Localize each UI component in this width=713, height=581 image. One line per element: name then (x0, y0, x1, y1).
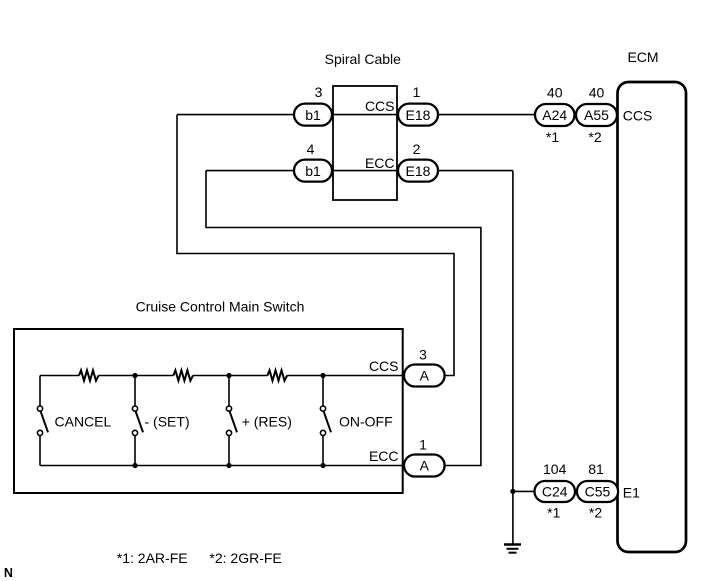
svg-text:40: 40 (589, 85, 605, 101)
wire ECC net: horizontal from left corner through spiral cable to vertical drop (206, 170, 513, 172)
svg-text:b1: b1 (305, 107, 321, 123)
svg-text:E1: E1 (623, 485, 640, 501)
node junction at ground drop (510, 489, 515, 494)
svg-text:CANCEL: CANCEL (55, 414, 112, 430)
svg-text:CCS: CCS (623, 108, 653, 124)
switch CANCEL (37, 376, 111, 466)
node dot top rail at SET branch (132, 373, 137, 378)
wire ECC net: vertical drop from E18 pin2 to ground junction (512, 171, 514, 544)
svg-text:- (SET): - (SET) (145, 414, 190, 430)
spiral cable box (333, 86, 397, 200)
node dot bottom rail at RES branch (226, 463, 231, 468)
wire top rail CCS inside switch (40, 375, 404, 377)
svg-text:ECC: ECC (365, 155, 395, 171)
node dot top rail at ON-OFF branch (320, 373, 325, 378)
node dot bottom rail at ON-OFF branch (320, 463, 325, 468)
svg-text:*2: *2 (589, 505, 602, 521)
svg-text:A55: A55 (584, 107, 609, 123)
svg-text:ECM: ECM (627, 49, 658, 65)
svg-text:*1: 2AR-FE: *1: 2AR-FE (117, 550, 188, 566)
svg-text:CCS: CCS (369, 358, 399, 374)
switch - (SET) (132, 376, 189, 466)
ground symbol (504, 545, 521, 553)
svg-text:CCS: CCS (365, 98, 395, 114)
connector A55 pin 40 (576, 85, 617, 146)
svg-text:*2: 2GR-FE: *2: 2GR-FE (209, 550, 281, 566)
svg-text:1: 1 (419, 437, 427, 453)
svg-text:E18: E18 (406, 107, 431, 123)
svg-text:+ (RES): + (RES) (242, 414, 292, 430)
svg-text:b1: b1 (305, 163, 321, 179)
wire CCS net: horizontal from left corner through spiral cable to ECM (177, 114, 618, 116)
svg-text:A: A (420, 368, 430, 384)
connector A24 pin 40 (535, 85, 575, 146)
svg-text:C55: C55 (585, 484, 611, 500)
connector b1 pin 3 (294, 84, 332, 126)
svg-text:A: A (420, 458, 430, 474)
connector A pin 1 (404, 437, 445, 477)
svg-text:81: 81 (588, 461, 604, 477)
switch + (RES) (226, 376, 291, 466)
node dot top rail at RES branch (226, 373, 231, 378)
wire bottom rail ECC inside switch (40, 465, 404, 467)
wire ECC net: route from b1 pin4 down and right to switch connector A pin1 (206, 171, 481, 466)
wire E1 net: junction to C24/C55 and ECM (513, 490, 618, 492)
svg-text:Cruise Control Main Switch: Cruise Control Main Switch (136, 299, 305, 315)
svg-text:C24: C24 (542, 484, 568, 500)
connector A pin 3 (404, 347, 445, 387)
connector E18 pin 1 (398, 84, 438, 126)
svg-text:4: 4 (307, 141, 315, 157)
resistor R2 (173, 370, 193, 380)
resistor R3 (268, 370, 288, 380)
svg-text:1: 1 (413, 84, 421, 100)
svg-text:40: 40 (547, 85, 563, 101)
node dot bottom rail at SET branch (132, 463, 137, 468)
svg-text:3: 3 (315, 84, 323, 100)
wire CCS net: route from b1 pin3 down and right to switch connector A pin3 (177, 115, 454, 376)
svg-text:A24: A24 (542, 107, 567, 123)
svg-text:104: 104 (543, 461, 567, 477)
svg-text:ON-OFF: ON-OFF (339, 414, 393, 430)
svg-text:*1: *1 (547, 505, 560, 521)
svg-text:Spiral Cable: Spiral Cable (325, 51, 401, 67)
connector E18 pin 2 (398, 141, 438, 182)
svg-text:*1: *1 (546, 129, 559, 145)
svg-text:3: 3 (419, 347, 427, 363)
svg-text:ECC: ECC (369, 448, 399, 464)
connector C24 pin 104 (535, 461, 576, 521)
svg-text:*2: *2 (588, 129, 601, 145)
switch ON-OFF (320, 376, 392, 466)
resistor R1 (79, 370, 99, 380)
svg-text:E18: E18 (406, 163, 431, 179)
cruise control main switch box (14, 329, 403, 493)
svg-text:N: N (4, 566, 13, 580)
ECM box (618, 82, 687, 552)
connector b1 pin 4 (294, 141, 332, 182)
svg-text:2: 2 (413, 141, 421, 157)
connector C55 pin 81 (577, 461, 618, 521)
